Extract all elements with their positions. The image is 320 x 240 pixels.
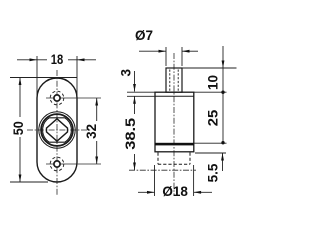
svg-text:38.5: 38.5 (123, 117, 138, 150)
svg-text:18: 18 (51, 52, 64, 67)
svg-text:3: 3 (119, 69, 134, 77)
svg-text:50: 50 (11, 121, 26, 135)
svg-text:Ø18: Ø18 (162, 184, 188, 199)
svg-text:25: 25 (205, 109, 220, 126)
svg-text:10: 10 (205, 75, 220, 90)
svg-text:Ø7: Ø7 (135, 28, 153, 43)
svg-text:32: 32 (84, 124, 99, 139)
svg-text:5.5: 5.5 (205, 163, 220, 182)
